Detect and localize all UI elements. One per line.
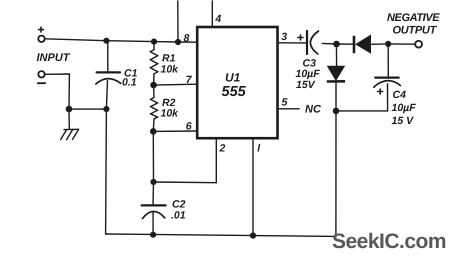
svg-text:.01: .01	[171, 210, 186, 222]
svg-text:5: 5	[282, 97, 288, 109]
svg-text:15 V: 15 V	[392, 115, 415, 127]
svg-text:3: 3	[281, 31, 287, 43]
svg-text:NC: NC	[305, 104, 322, 116]
svg-text:SeekIC.com: SeekIC.com	[332, 230, 446, 253]
svg-text:4: 4	[214, 13, 221, 25]
svg-text:8: 8	[184, 33, 190, 45]
svg-text:10µF: 10µF	[392, 102, 417, 114]
svg-text:INPUT: INPUT	[37, 52, 71, 64]
svg-text:6: 6	[186, 121, 192, 133]
svg-text:10k: 10k	[161, 63, 180, 75]
svg-text:2: 2	[219, 142, 226, 154]
svg-text:U1: U1	[225, 70, 241, 84]
svg-text:555: 555	[222, 84, 247, 100]
svg-text:15V: 15V	[296, 79, 316, 91]
svg-text:C4: C4	[393, 89, 407, 101]
svg-text:0.1: 0.1	[122, 77, 137, 89]
svg-text:NEGATIVE: NEGATIVE	[387, 12, 440, 24]
svg-text:10k: 10k	[161, 108, 180, 120]
svg-text:OUTPUT: OUTPUT	[393, 25, 438, 37]
